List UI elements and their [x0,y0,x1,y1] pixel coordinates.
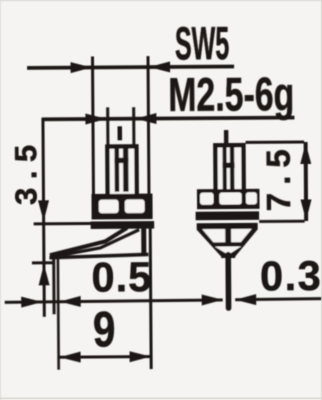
svg-text:0.5: 0.5 [91,253,152,300]
svg-text:9: 9 [93,301,116,357]
svg-text:M2.5-6g: M2.5-6g [168,68,294,122]
svg-text:0.3: 0.3 [260,252,322,299]
svg-text:SW5: SW5 [175,17,230,70]
svg-text:7.5: 7.5 [260,141,297,211]
svg-text:3.5: 3.5 [8,136,43,205]
